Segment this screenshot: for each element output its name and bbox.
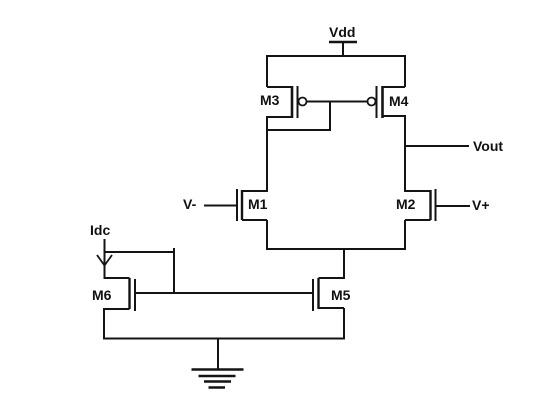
wire Idc mirror branch vertical xyxy=(173,248,175,293)
wire M1 source drop xyxy=(266,220,268,250)
svg-text:M3: M3 xyxy=(260,92,280,108)
wire Idc mirror branch horizontal xyxy=(105,251,175,253)
wire V+ gate lead xyxy=(437,205,471,207)
svg-text:V-: V- xyxy=(183,196,197,212)
transistor M4 (PMOS) xyxy=(368,86,409,118)
wire Vdd stub xyxy=(342,41,344,57)
transistor M5 (NMOS) xyxy=(313,278,351,311)
wire top Vdd rail xyxy=(266,55,406,57)
wire gate bus between M3 and M4 gates xyxy=(307,101,368,103)
wire M3 diode connection xyxy=(266,129,331,131)
svg-text:M4: M4 xyxy=(389,93,409,109)
wire V- gate lead xyxy=(204,205,236,207)
wire right rail drop to M4 source xyxy=(404,55,406,87)
transistor M1 (NMOS) xyxy=(237,189,268,221)
wire M5 source drop xyxy=(343,308,345,339)
svg-text:Vout: Vout xyxy=(473,138,503,154)
arrow Idc current arrowhead xyxy=(97,255,112,266)
transistor M6 (NMOS) xyxy=(92,278,135,311)
power Vdd supply bar symbol xyxy=(329,41,357,44)
wire right branch M4 drain to M2 drain xyxy=(404,115,406,192)
wire left rail drop to M3 source xyxy=(266,55,268,87)
ground symbol xyxy=(192,370,244,388)
wire M6 source drop xyxy=(103,308,105,339)
svg-text:V+: V+ xyxy=(472,197,490,213)
svg-text:M1: M1 xyxy=(248,196,268,212)
wire bottom rail xyxy=(103,338,345,340)
wire tail rail xyxy=(266,248,406,250)
wire gate bus M6 to M5 xyxy=(135,292,313,294)
wire left branch M3 drain to M1 drain xyxy=(266,116,268,192)
svg-text:M2: M2 xyxy=(396,196,416,212)
transistor M3 (PMOS) xyxy=(260,86,307,118)
svg-text:M6: M6 xyxy=(92,287,112,303)
svg-text:Idc: Idc xyxy=(90,222,110,238)
wire Vout stub xyxy=(405,145,469,147)
wire gate tap down xyxy=(329,102,331,131)
wire M2 source drop xyxy=(404,220,406,250)
svg-text:Vdd: Vdd xyxy=(329,24,355,40)
wire Idc vertical lead xyxy=(104,239,106,279)
svg-text:M5: M5 xyxy=(331,287,351,303)
transistor M2 (NMOS) xyxy=(396,189,436,221)
wire ground stub xyxy=(217,339,219,369)
wire tail tap to M5 drain xyxy=(343,249,345,279)
